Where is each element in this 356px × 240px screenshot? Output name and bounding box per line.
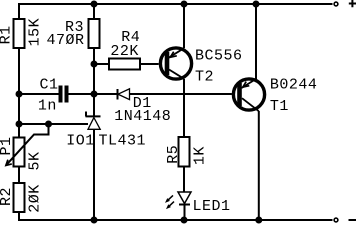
- transistor T2 circle: [160, 48, 191, 79]
- wire: TL431 anode to bottom rail: [93, 129, 95, 220]
- wire: T1 collector down to bottom rail: [258, 111, 260, 220]
- wire: R4 right lead to T2 base: [140, 63, 159, 65]
- wire: T2 emitter to top rail: [183, 4, 185, 48]
- wire: C1 right plate to D1 cathode: [68, 93, 118, 95]
- svg-text:47ØR: 47ØR: [47, 32, 85, 49]
- label: plus sign: [349, 0, 356, 7]
- wire: T2 collector down to R5 top: [183, 79, 185, 137]
- LED1 emission arrow 1: [167, 195, 173, 201]
- LED1 emission arrow 2: [168, 202, 174, 208]
- node: R1/R2 divider junction: [16, 121, 23, 128]
- svg-text:1n: 1n: [38, 98, 57, 115]
- potentiometer P1 arrowhead: [6, 160, 12, 166]
- wire: R1 bottom to P1 top (left column): [18, 48, 20, 138]
- transistor T1 emitter arrow (PNP): [243, 82, 250, 88]
- transistor T2 emitter line: [169, 48, 184, 57]
- shunt regulator IO1 TL431 cathode bar with tick: [86, 112, 101, 117]
- node: TL431 anode at bottom rail: [91, 217, 98, 224]
- transistor T2 collector line: [169, 70, 184, 79]
- label: minus sign: [349, 219, 356, 221]
- node: R4 branch junction: [91, 61, 98, 68]
- terminal: positive supply: [334, 2, 338, 6]
- transistor T2 emitter arrow (PNP): [170, 52, 177, 58]
- wire: top supply rail: [19, 4, 333, 19]
- resistor R5: [179, 137, 190, 167]
- diode D1 cathode bar: [117, 89, 119, 100]
- svg-text:5K: 5K: [26, 151, 43, 170]
- node: LED cathode at bottom rail: [181, 217, 188, 224]
- wire: P1 bottom to R2 top: [18, 167, 20, 184]
- node: P1 wiper junction: [45, 121, 52, 128]
- wire: R5 bottom to LED1: [183, 167, 185, 193]
- transistor T1 collector line extended: [242, 98, 259, 111]
- svg-text:R5: R5: [165, 145, 182, 164]
- node: T1 collector at bottom rail: [255, 217, 262, 224]
- node: R3 top junction: [91, 1, 98, 8]
- resistor R3: [89, 19, 100, 48]
- svg-text:1N4148: 1N4148: [114, 108, 171, 125]
- wire: R4 left lead from node: [94, 63, 109, 65]
- svg-text:2ØK: 2ØK: [26, 184, 43, 213]
- terminal: negative supply: [334, 218, 338, 222]
- node: R3/C1/D1 junction: [91, 91, 98, 98]
- svg-text:TL431: TL431: [99, 133, 147, 150]
- transistor T2 base bar: [165, 52, 170, 75]
- wire: R3 top lead: [93, 4, 95, 19]
- svg-text:R1: R1: [0, 25, 14, 44]
- wire: D1 anode to T1 base: [130, 93, 232, 95]
- svg-text:LED1: LED1: [193, 198, 231, 215]
- svg-text:22K: 22K: [110, 43, 139, 60]
- capacitor C1 plates: [59, 86, 69, 103]
- shunt regulator IO1 TL431 triangle: [88, 118, 100, 130]
- node: T1 emitter junction: [253, 1, 260, 8]
- wire: R3 bottom to TL431 cathode: [93, 48, 95, 117]
- svg-text:T2: T2: [195, 68, 214, 85]
- resistor R4: [109, 59, 140, 70]
- wire: reference line from R1/P1 node to TL431 ref: [19, 123, 88, 125]
- svg-text:P1: P1: [0, 136, 15, 155]
- wire: C1 left lead: [19, 93, 59, 95]
- resistor R2: [14, 183, 25, 212]
- LED1 cathode bar: [179, 204, 190, 206]
- diode D1 triangle: [118, 89, 130, 100]
- wire: bottom supply rail: [19, 212, 333, 220]
- svg-text:B0244: B0244: [270, 76, 318, 93]
- transistor T1 emitter line: [242, 79, 257, 88]
- LED1 triangle: [178, 192, 191, 204]
- wire: LED1 cathode to bottom rail: [184, 205, 186, 221]
- wire: P1 wiper connection: [6, 124, 49, 165]
- svg-text:R2: R2: [0, 187, 15, 206]
- wire: T1 emitter to top rail: [255, 4, 257, 79]
- svg-text:15K: 15K: [26, 18, 43, 47]
- svg-text:C1: C1: [40, 77, 59, 94]
- svg-text:BC556: BC556: [195, 48, 243, 65]
- transistor T1 circle: [233, 79, 264, 110]
- node: C1 left junction: [16, 91, 23, 98]
- potentiometer P1 body: [14, 138, 25, 167]
- svg-text:1K: 1K: [191, 146, 208, 165]
- node: T2 emitter junction: [181, 1, 188, 8]
- svg-text:T1: T1: [270, 98, 289, 115]
- transistor T1 base bar: [237, 83, 242, 106]
- svg-text:IO1: IO1: [66, 133, 95, 150]
- resistor R1: [14, 19, 25, 48]
